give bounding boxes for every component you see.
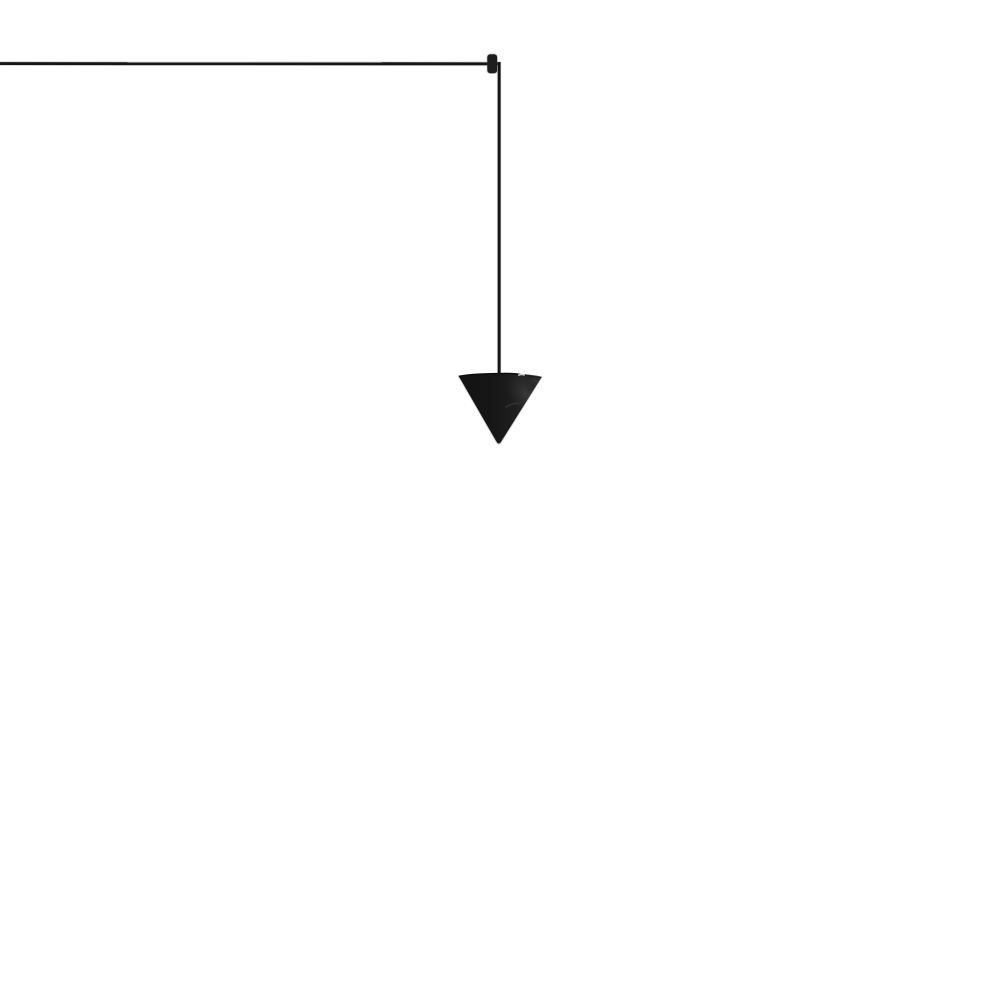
wire horizontal rod soft halo	[0, 61, 500, 66]
wire vertical cord	[498, 62, 501, 377]
rim top bevel sheen	[526, 375, 541, 377]
wire horizontal rod	[0, 62, 500, 65]
cone soft edge halo	[459, 374, 541, 444]
right edge sheen toward tip	[502, 411, 525, 441]
wire vertical cord soft halo	[497, 62, 501, 377]
rim specular highlight	[519, 373, 524, 376]
cone shade	[459, 374, 541, 444]
connector cylinder soft halo	[487, 54, 498, 75]
cone faint streak highlight	[506, 403, 520, 407]
connector cylinder	[487, 54, 497, 73]
cone inner sheen patch	[498, 363, 554, 441]
cone rim top dark line	[459, 374, 541, 378]
